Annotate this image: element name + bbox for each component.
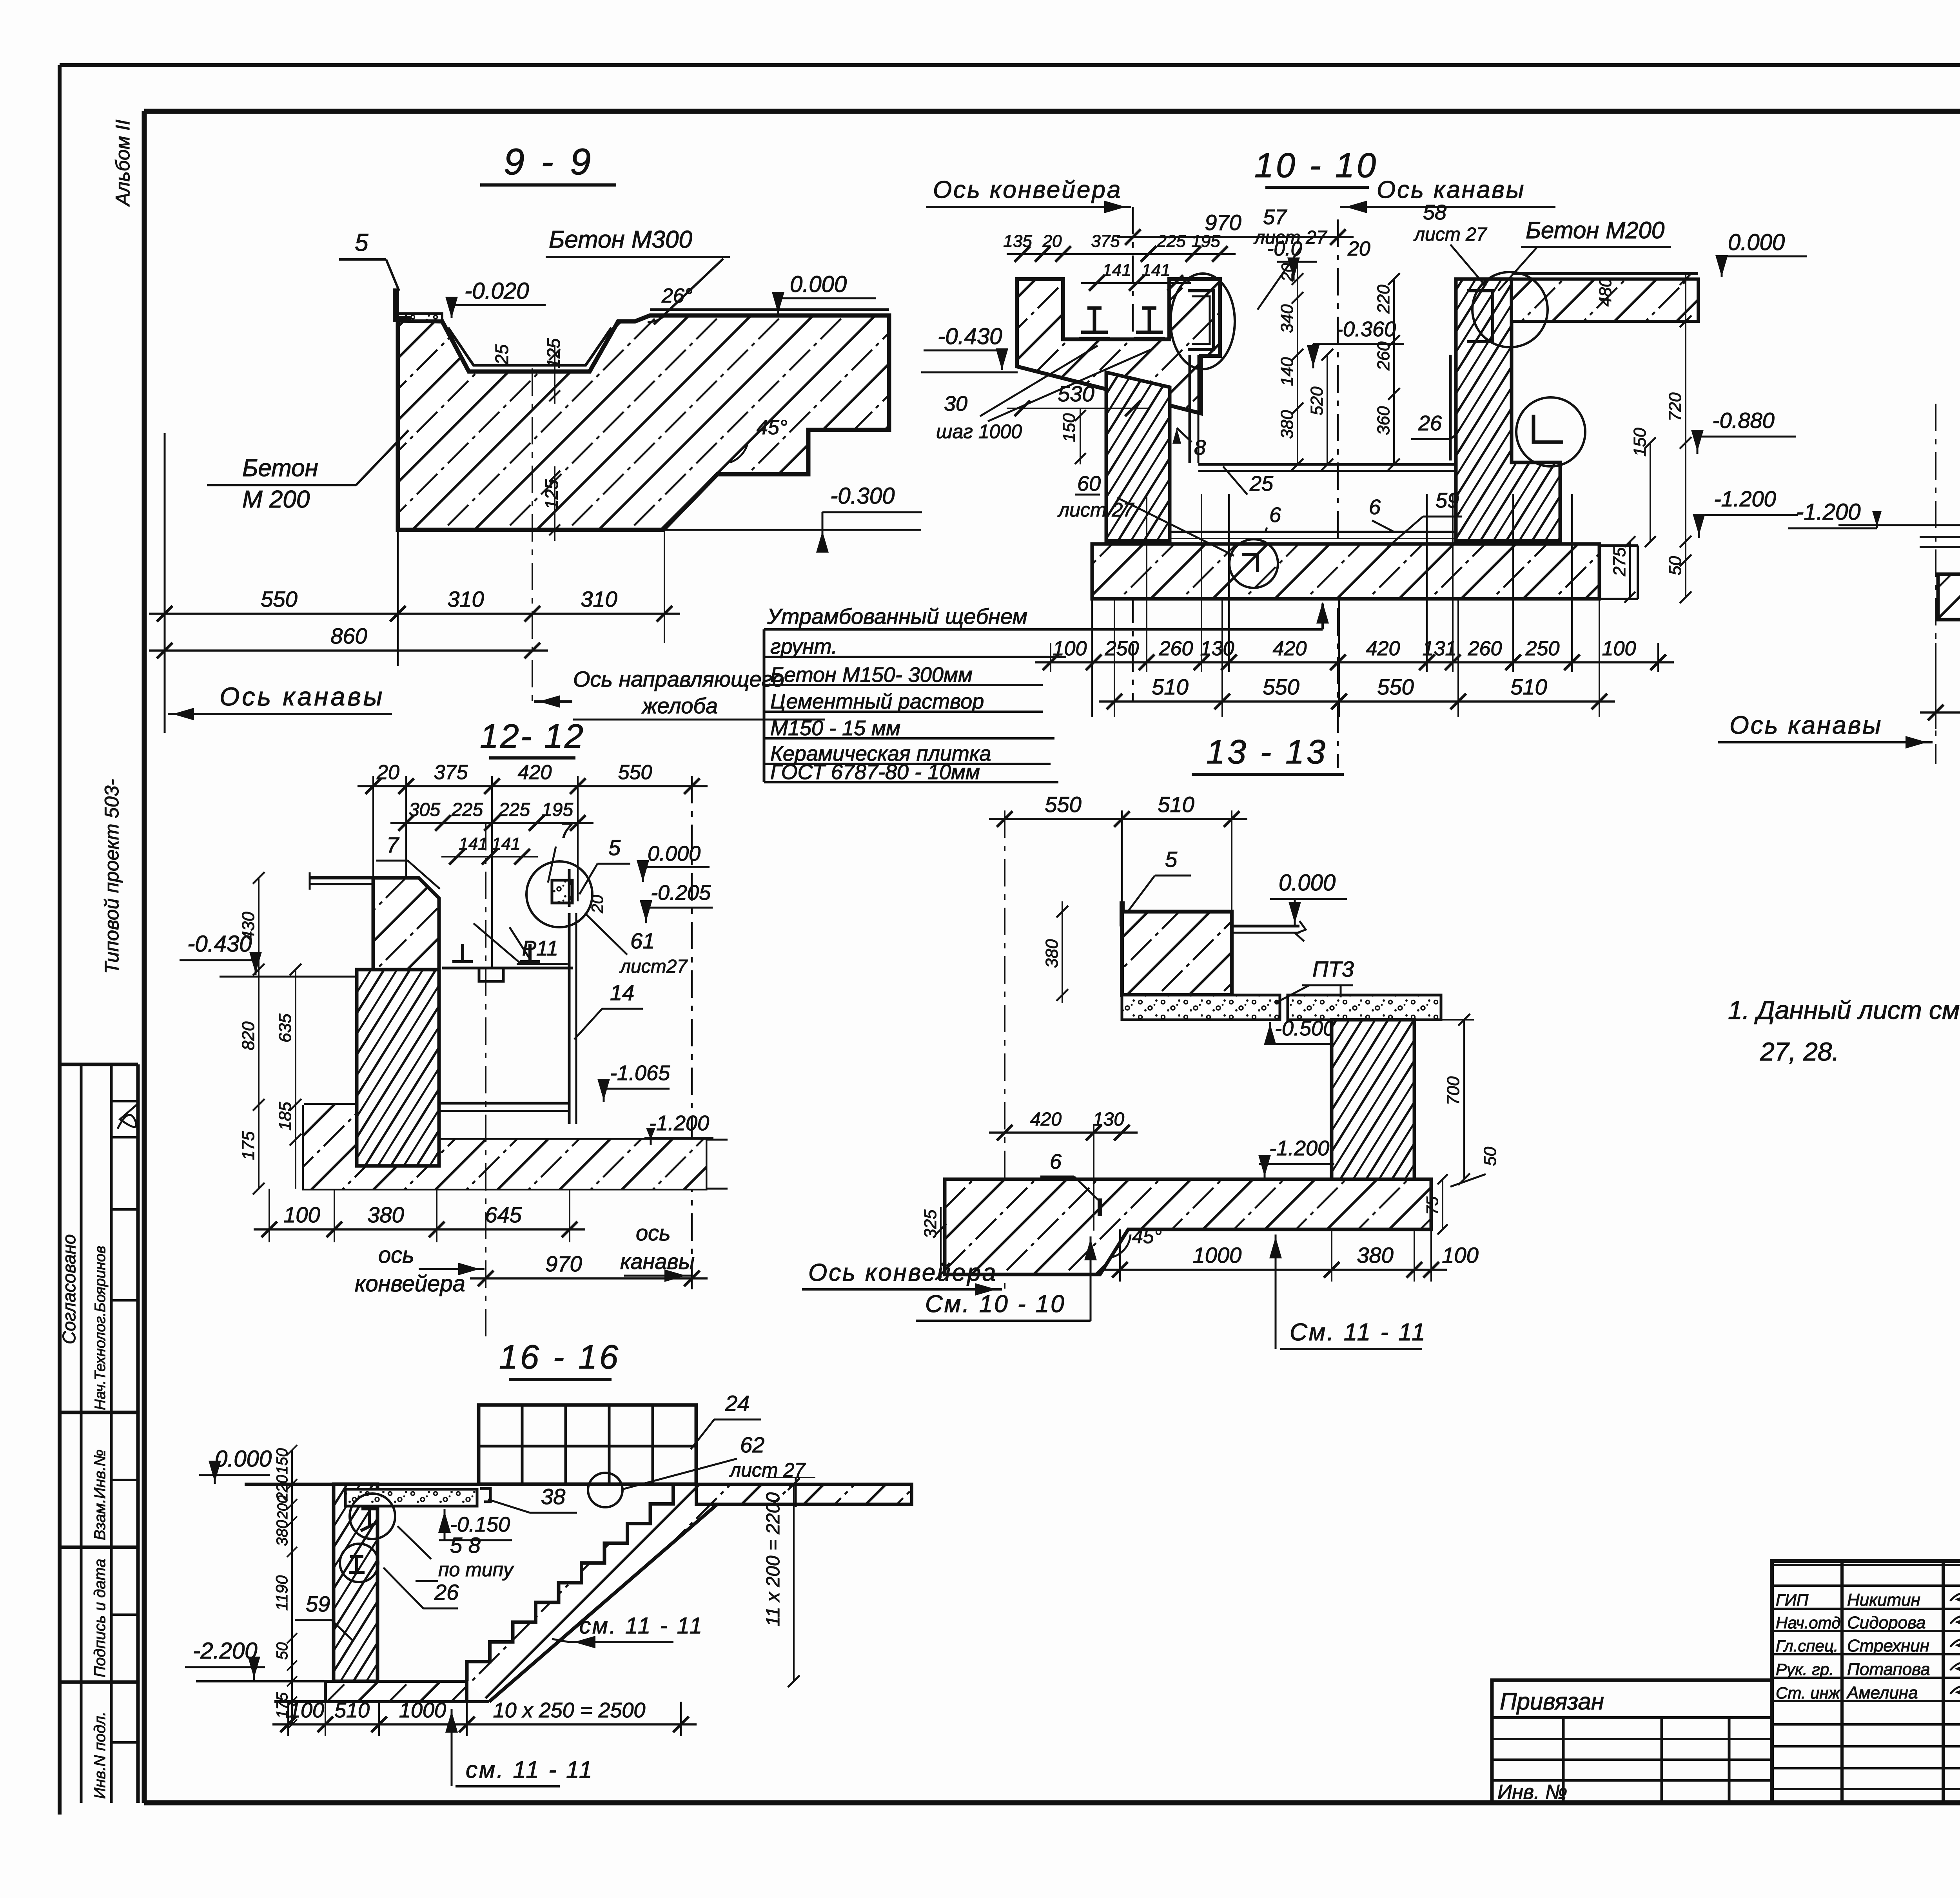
svg-text:420: 420 [1030,1109,1062,1130]
svg-text:59: 59 [306,1592,330,1616]
svg-text:125: 125 [541,479,562,509]
svg-text:550: 550 [1263,674,1299,699]
svg-text:375: 375 [1091,232,1120,251]
svg-text:Инв.N подл.: Инв.N подл. [91,1711,109,1799]
svg-text:Цементный раствор: Цементный раствор [770,690,984,713]
svg-text:510: 510 [1158,792,1194,817]
svg-text:Подпись и дата: Подпись и дата [91,1559,109,1677]
svg-text:150: 150 [1630,428,1650,457]
svg-text:62: 62 [740,1432,764,1457]
svg-text:510: 510 [1152,674,1188,699]
svg-text:по типу: по типу [438,1559,514,1581]
svg-text:Привязан: Привязан [1500,1688,1604,1715]
svg-text:375: 375 [434,761,468,784]
svg-text:0.000: 0.000 [1279,870,1336,896]
svg-text:грунт.: грунт. [770,635,837,658]
svg-text:ось: ось [636,1220,671,1245]
svg-text:0.000: 0.000 [648,842,701,865]
svg-text:275: 275 [1610,547,1629,576]
svg-text:100: 100 [1602,637,1636,660]
svg-text:Ось конвейера: Ось конвейера [933,176,1122,203]
svg-text:260: 260 [1374,341,1393,371]
svg-text:Взам.Инв.№: Взам.Инв.№ [91,1449,109,1540]
svg-text:380: 380 [1042,939,1062,968]
svg-text:175: 175 [239,1131,258,1160]
svg-text:380: 380 [1278,410,1297,439]
svg-text:лист27: лист27 [619,956,688,977]
svg-text:225: 225 [451,799,483,820]
svg-text:Потапова: Потапова [1847,1660,1930,1679]
svg-text:970: 970 [1205,210,1241,235]
svg-text:Инв. №: Инв. № [1497,1781,1567,1804]
svg-text:50: 50 [274,1642,291,1660]
svg-text:1. Данный лист см. совместн: 1. Данный лист см. совместно с листами 2… [1728,995,1960,1024]
svg-text:0.000: 0.000 [215,1446,272,1472]
svg-text:-0.430: -0.430 [938,324,1002,349]
svg-text:420: 420 [1273,637,1307,660]
svg-text:см. 11 - 11: см. 11 - 11 [466,1757,593,1783]
svg-text:20: 20 [1347,237,1370,260]
svg-text:260: 260 [1468,637,1502,660]
svg-text:141: 141 [1102,261,1131,280]
svg-text:510: 510 [1510,674,1547,699]
svg-text:860: 860 [330,624,367,648]
svg-text:195: 195 [542,799,573,820]
svg-text:140: 140 [1278,357,1297,386]
svg-text:10 - 10: 10 - 10 [1254,146,1378,185]
svg-text:Бетон М200: Бетон М200 [1526,217,1664,243]
svg-text:24: 24 [725,1391,750,1416]
svg-text:конвейера: конвейера [355,1271,465,1296]
svg-text:720: 720 [1666,392,1685,421]
svg-text:520: 520 [1307,386,1327,415]
svg-text:-1.200: -1.200 [1269,1137,1329,1160]
svg-text:420: 420 [1366,637,1400,660]
svg-text:100: 100 [283,1202,320,1227]
svg-text:Бетон М150- 300мм: Бетон М150- 300мм [770,663,973,687]
svg-text:57: 57 [1263,205,1287,229]
svg-text:Альбом II: Альбом II [112,120,134,207]
svg-text:См. 11 - 11: См. 11 - 11 [1290,1319,1427,1346]
svg-text:380: 380 [1357,1243,1393,1267]
svg-text:130: 130 [1093,1109,1124,1130]
svg-text:25: 25 [1249,472,1274,495]
svg-text:М150 - 15 мм: М150 - 15 мм [770,716,900,740]
svg-text:Ось конвейера: Ось конвейера [808,1259,997,1286]
svg-text:141: 141 [492,834,520,854]
svg-text:См. 10 - 10: См. 10 - 10 [925,1291,1066,1318]
svg-text:61: 61 [630,928,655,953]
svg-text:305: 305 [409,799,440,820]
svg-text:0.000: 0.000 [1728,230,1785,255]
svg-text:5: 5 [608,835,621,860]
svg-text:420: 420 [518,761,552,784]
svg-text:ПТ3: ПТ3 [1312,957,1354,981]
svg-text:38: 38 [541,1484,565,1509]
svg-text:шаг 1000: шаг 1000 [936,421,1022,442]
svg-text:550: 550 [618,761,652,784]
svg-text:5: 5 [1165,847,1178,872]
svg-text:5: 5 [355,229,368,256]
svg-text:Утрамбованный щебнем: Утрамбованный щебнем [767,604,1027,629]
svg-text:-2.200: -2.200 [193,1638,257,1664]
svg-text:59: 59 [1436,489,1459,512]
svg-text:7: 7 [560,818,573,843]
svg-text:11 x 200 = 2200: 11 x 200 = 2200 [763,1492,784,1626]
svg-text:-1.200: -1.200 [649,1111,709,1135]
svg-text:60: 60 [1077,472,1101,495]
svg-text:550: 550 [1377,674,1414,699]
svg-text:желоба: желоба [641,693,718,718]
svg-text:13 - 13: 13 - 13 [1206,733,1328,771]
svg-text:150: 150 [274,1448,291,1474]
svg-text:27, 28.: 27, 28. [1760,1037,1839,1066]
svg-text:Ось канавы: Ось канавы [1377,176,1525,203]
svg-text:0.000: 0.000 [790,272,847,297]
svg-text:ГИП: ГИП [1776,1591,1809,1609]
svg-text:лист 27: лист 27 [1057,499,1134,521]
svg-text:550: 550 [1045,792,1081,817]
svg-text:12- 12: 12- 12 [480,718,585,755]
svg-text:220: 220 [1374,285,1393,314]
svg-text:195: 195 [1191,232,1220,251]
svg-text:Нач.отд: Нач.отд [1776,1613,1840,1632]
svg-text:Ось направляющего: Ось направляющего [573,667,784,691]
svg-text:480: 480 [1596,277,1615,306]
svg-text:26: 26 [1418,412,1442,435]
svg-text:380: 380 [274,1520,291,1546]
svg-text:-1.065: -1.065 [610,1061,670,1085]
svg-text:Ось канавы: Ось канавы [220,682,385,711]
svg-text:Амелина: Амелина [1846,1683,1918,1702]
svg-text:50: 50 [1481,1147,1500,1166]
svg-text:Ст. инж: Ст. инж [1776,1684,1841,1702]
svg-text:7: 7 [387,832,399,857]
svg-text:6: 6 [1369,495,1381,519]
svg-text:30: 30 [944,392,967,415]
svg-text:260: 260 [1159,637,1193,660]
svg-text:6: 6 [1050,1150,1062,1173]
svg-text:25: 25 [492,344,512,365]
svg-text:125: 125 [543,338,564,368]
svg-text:-0.300: -0.300 [830,483,895,509]
svg-text:75: 75 [1423,1196,1441,1215]
svg-text:16 - 16: 16 - 16 [499,1338,621,1376]
svg-text:10 x 250 = 2500: 10 x 250 = 2500 [493,1699,646,1722]
svg-text:-1.200: -1.200 [1714,486,1776,511]
svg-text:20: 20 [376,761,399,784]
svg-text:Согласовано: Согласовано [59,1234,79,1344]
svg-text:58: 58 [1423,201,1446,224]
svg-text:360: 360 [1374,406,1393,435]
svg-text:Бетон: Бетон [242,455,318,482]
svg-text:530: 530 [1058,381,1094,406]
svg-text:141: 141 [459,834,487,854]
svg-text:Ось канавы: Ось канавы [1730,711,1882,739]
svg-text:-0.500: -0.500 [1275,1017,1335,1040]
svg-text:250: 250 [1105,637,1139,660]
svg-text:-1.200: -1.200 [1796,499,1860,525]
svg-text:1190: 1190 [272,1575,291,1611]
svg-text:820: 820 [239,1021,258,1050]
svg-text:-0.880: -0.880 [1712,408,1775,433]
svg-text:185: 185 [276,1102,295,1131]
svg-text:141: 141 [1142,261,1170,280]
svg-text:310: 310 [581,587,617,611]
svg-text:310: 310 [447,587,484,611]
svg-text:150: 150 [1060,413,1079,442]
svg-text:Никитин: Никитин [1847,1590,1920,1610]
svg-text:645: 645 [485,1202,522,1227]
svg-text:14: 14 [610,980,634,1005]
svg-text:20: 20 [1278,263,1296,282]
svg-text:-0.020: -0.020 [465,278,529,304]
svg-text:см. 11 - 11: см. 11 - 11 [579,1613,704,1639]
svg-text:100: 100 [289,1699,324,1722]
svg-text:20: 20 [1042,232,1062,251]
svg-text:970: 970 [545,1251,582,1276]
svg-text:225: 225 [498,799,530,820]
svg-text:200: 200 [274,1496,290,1519]
svg-text:1000: 1000 [399,1699,446,1722]
svg-text:635: 635 [276,1013,295,1042]
svg-text:-0.205: -0.205 [651,881,711,905]
svg-text:380: 380 [367,1202,404,1227]
svg-text:510: 510 [334,1699,370,1722]
svg-text:ГОСТ 6787-80 - 10мм: ГОСТ 6787-80 - 10мм [770,760,980,784]
svg-text:Стрехнин: Стрехнин [1847,1636,1929,1655]
svg-text:45°: 45° [1132,1225,1162,1247]
svg-text:50: 50 [1666,556,1685,575]
svg-text:Нач.Технолог.Бояринов: Нач.Технолог.Бояринов [92,1246,109,1410]
svg-text:340: 340 [1278,304,1297,333]
svg-text:Типовой проект 503-: Типовой проект 503- [101,779,123,974]
svg-text:5 8: 5 8 [450,1533,481,1557]
svg-text:9 - 9: 9 - 9 [504,141,594,183]
svg-text:700: 700 [1444,1076,1463,1105]
svg-text:Сидорова: Сидорова [1847,1613,1926,1632]
svg-text:100: 100 [1442,1243,1478,1267]
svg-text:26: 26 [434,1580,459,1604]
svg-text:135: 135 [1003,232,1032,251]
svg-text:-0.0: -0.0 [1267,237,1302,260]
svg-text:1000: 1000 [1193,1243,1242,1267]
svg-text:Бетон М300: Бетон М300 [549,226,692,253]
svg-text:26°: 26° [661,285,693,307]
svg-text:Рук. гр.: Рук. гр. [1776,1660,1834,1679]
svg-text:550: 550 [261,587,297,611]
svg-text:-0.360: -0.360 [1336,317,1396,341]
svg-text:ось: ось [378,1242,414,1268]
svg-text:225: 225 [1156,232,1186,251]
svg-text:канавы: канавы [620,1249,695,1274]
svg-text:45°: 45° [757,416,788,439]
svg-text:8: 8 [1194,436,1206,459]
svg-text:6: 6 [1269,503,1281,527]
svg-text:лист 27: лист 27 [1413,224,1488,245]
svg-text:М 200: М 200 [242,486,310,513]
svg-text:430: 430 [239,912,258,941]
svg-text:250: 250 [1525,637,1560,660]
svg-text:Гл.спец.: Гл.спец. [1776,1637,1838,1655]
